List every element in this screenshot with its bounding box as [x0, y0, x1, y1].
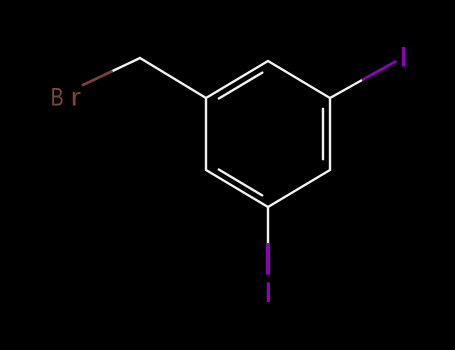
svg-text:B: B — [51, 83, 64, 111]
svg-text:r: r — [71, 82, 81, 110]
